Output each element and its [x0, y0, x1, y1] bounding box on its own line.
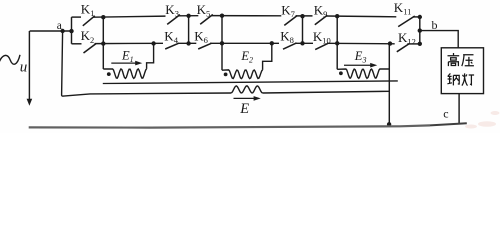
- svg-text:K6: K6: [194, 28, 208, 45]
- glyph na (sodium): [447, 73, 459, 85]
- wire E2 right tap: [263, 43, 272, 70]
- svg-text:K9: K9: [314, 2, 328, 19]
- svg-text:K10: K10: [313, 29, 331, 46]
- inductor E3 winding: [337, 69, 389, 78]
- svg-text:K12: K12: [398, 30, 416, 47]
- svg-text:K2: K2: [81, 28, 95, 45]
- svg-text:E1: E1: [121, 48, 134, 63]
- wire bottom right end: [430, 123, 467, 125]
- junction K3K4 out: [188, 15, 190, 43]
- wire junction b to lamp: [420, 31, 458, 48]
- scan artifact smudges: [465, 111, 500, 129]
- node a: [60, 29, 64, 33]
- arrow voltage u: [28, 31, 30, 100]
- svg-text:K4: K4: [164, 28, 178, 45]
- switch K1 blade: [83, 16, 95, 26]
- E1 polarity dot: [107, 72, 111, 76]
- svg-text:u: u: [20, 60, 28, 76]
- svg-text:E: E: [239, 101, 249, 117]
- AC source symbol: [0, 55, 20, 64]
- inductor E1 winding: [103, 69, 146, 79]
- switch K5 blade: [200, 15, 213, 25]
- wire E1 right tap: [147, 44, 154, 69]
- switch K8 blade: [283, 43, 297, 49]
- wire bottom rail segments: [72, 43, 82, 45]
- winding E main: [231, 86, 263, 93]
- lamp text: hand-drawn CJK strokes: [447, 53, 474, 86]
- arrow E main: [234, 97, 255, 99]
- wire node a drop to winding E: [62, 31, 231, 96]
- svg-text:b: b: [432, 18, 438, 32]
- switch K6 blade: [198, 43, 211, 49]
- svg-text:a: a: [57, 20, 62, 32]
- switch K9 blade: [315, 15, 328, 25]
- switch K4 blade: [165, 43, 179, 49]
- lamp box: [441, 48, 483, 94]
- wire bottom return: [29, 125, 430, 127]
- wire K-branch vertical: [71, 17, 73, 44]
- wire top rail segments: [72, 16, 82, 18]
- switch K11 blade: [398, 16, 415, 27]
- inductor E2 winding: [222, 70, 263, 79]
- junction K9K10 out, E3 left tap: [336, 16, 338, 69]
- glyph deng (lamp): [462, 73, 474, 85]
- arrow E3: [344, 64, 371, 66]
- E2 polarity dot: [224, 73, 228, 77]
- svg-text:c: c: [443, 107, 448, 121]
- junction K1K2 out, E1 left tap: [102, 17, 104, 69]
- E3 polarity dot: [339, 71, 343, 75]
- svg-text:K5: K5: [197, 2, 211, 19]
- junction K11K12 out, node b: [419, 17, 421, 44]
- junction K7K8 out: [302, 16, 304, 43]
- svg-text:K11: K11: [394, 0, 412, 16]
- wire from source to node a: [30, 30, 72, 32]
- glyph ya (pressure): [462, 55, 474, 66]
- switch K3 blade: [167, 15, 180, 25]
- switch K2 blade: [84, 44, 97, 53]
- svg-text:K7: K7: [281, 2, 295, 19]
- wire lamp to node c: [458, 94, 460, 124]
- junction node to K branch: [69, 29, 73, 33]
- svg-text:K1: K1: [81, 1, 95, 18]
- switch K7 blade: [284, 16, 297, 26]
- switch K12 blade: [397, 44, 409, 52]
- svg-text:E3: E3: [354, 49, 367, 64]
- svg-text:E2: E2: [240, 49, 253, 64]
- arrow E1: [111, 62, 137, 64]
- transformer core line: [103, 81, 398, 84]
- wire E3 right vertical down to bottom wire: [388, 44, 390, 125]
- svg-text:K8: K8: [280, 28, 294, 45]
- switch K10 blade: [315, 43, 328, 50]
- junction K5K6 out, E2 left tap: [221, 15, 223, 70]
- wire E to E3 tap: [263, 91, 390, 93]
- svg-text:K3: K3: [165, 2, 179, 19]
- glyph gao (high): [448, 53, 460, 66]
